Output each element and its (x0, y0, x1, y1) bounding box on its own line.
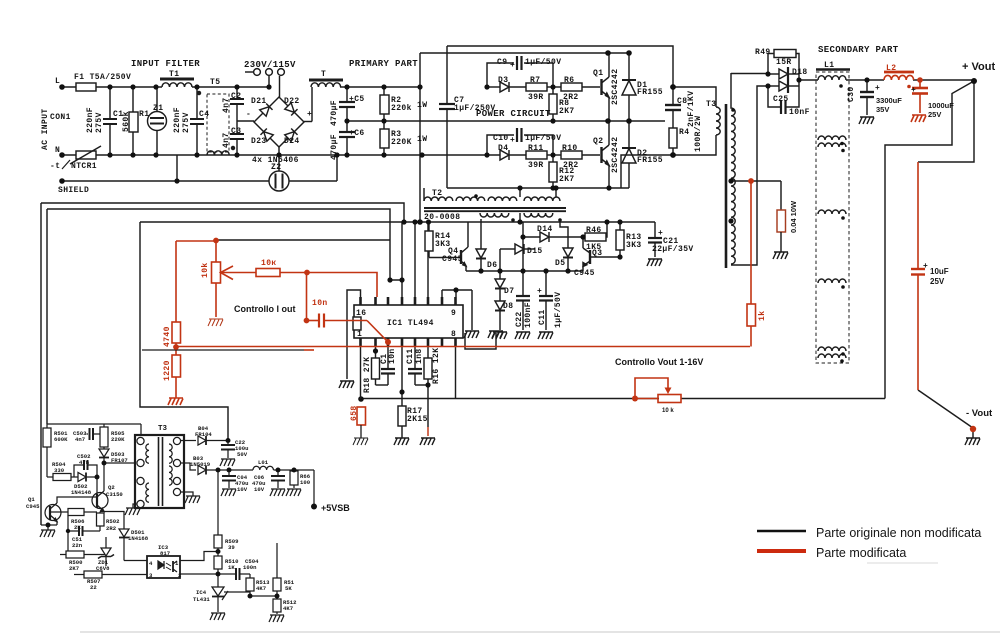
capacitor C4 (196, 87, 198, 119)
svg-text:FR107: FR107 (111, 457, 128, 464)
wire: bottom rail y=188 (447, 187, 629, 189)
resistor R509 (217, 470, 219, 535)
node 10n left (red) (304, 318, 310, 324)
wire: T2 taps (519, 188, 521, 197)
transistor Q2 (600, 147, 602, 163)
svg-text:+C6: +C6 (349, 129, 365, 138)
resistor R506 (50, 511, 68, 513)
svg-text:220k: 220k (391, 104, 412, 113)
svg-text:IC4: IC4 (196, 589, 207, 596)
svg-text:L: L (55, 77, 60, 86)
svg-text:25V: 25V (930, 277, 945, 286)
thermistor NTCR1 (76, 151, 96, 159)
wire: L2 to +Vout (913, 79, 974, 81)
ground C21 (647, 259, 662, 266)
potentiometer 10k (Controllo Vout) (635, 378, 668, 399)
svg-text:+: + (307, 110, 312, 119)
SEC_STANDBY (40, 424, 314, 622)
wire: shield line (62, 180, 269, 182)
svg-text:R7: R7 (530, 76, 540, 85)
capacitor C06 (277, 470, 279, 476)
svg-text:4n7: 4n7 (222, 132, 231, 148)
resistor R66 (293, 470, 295, 471)
capacitor C504 (232, 573, 235, 575)
svg-text:1µF/50V: 1µF/50V (525, 134, 561, 143)
wire: Q1 emitter to ground rail (41, 524, 57, 526)
svg-text:-: - (246, 110, 251, 119)
svg-text:100R/2W: 100R/2W (694, 116, 703, 152)
diode D03 1N5019 (180, 463, 196, 470)
wire: pin1 column (360, 346, 362, 399)
svg-text:C6V8: C6V8 (96, 565, 110, 572)
SEC_T3SEC (361, 50, 980, 446)
wire: Vcc bus y=222 (140, 221, 655, 223)
ground C22 (515, 332, 530, 339)
resistor R512 (273, 599, 281, 612)
resistor R4 (669, 128, 677, 148)
ground R16 column (420, 438, 435, 445)
wire: bus to chip pin columns (401, 222, 403, 280)
svg-text:L1: L1 (824, 61, 834, 70)
svg-text:+: + (537, 287, 542, 296)
svg-text:3K3: 3K3 (626, 241, 642, 250)
ground 1000uF (red) (911, 115, 926, 122)
svg-text:D23: D23 (251, 137, 267, 146)
transformer T3 core (725, 104, 728, 268)
transistor Q1 C945 (45, 505, 61, 521)
wire: opto pin2 to TL431 (180, 573, 232, 575)
wire: rectified + rail after bridge (340, 86, 420, 88)
resistor R504 (47, 476, 53, 478)
svg-text:C11: C11 (538, 309, 547, 325)
svg-text:35V: 35V (876, 105, 889, 114)
transformer T3 primary (673, 87, 716, 107)
wire: N neutral rail y=155 (62, 154, 447, 156)
svg-text:8: 8 (451, 330, 456, 339)
transistor Q3 (589, 250, 591, 264)
svg-text:D21: D21 (251, 97, 267, 106)
svg-text:47n: 47n (79, 459, 90, 466)
wire: mid rail y=121 (346, 120, 665, 122)
svg-text:T5: T5 (210, 78, 220, 87)
diode D4 (447, 154, 500, 156)
wire: collector rail column x=420 (419, 53, 421, 222)
wire: D18 output to L1 (799, 79, 818, 81)
diode D22 (285, 103, 298, 116)
capacitor C10 (487, 135, 514, 155)
svg-text:+: + (510, 61, 515, 70)
capacitor C8 (672, 87, 674, 105)
SEC_INPUT (62, 53, 665, 222)
svg-text:4K7: 4K7 (256, 585, 266, 592)
node -Vout (red) (970, 426, 976, 432)
svg-text:470µF: 470µF (330, 134, 339, 160)
wire: ground U right of chip (465, 333, 496, 349)
svg-text:15R: 15R (776, 58, 792, 67)
svg-text:1W: 1W (417, 101, 427, 110)
capacitor C1 (109, 87, 111, 119)
resistor R500 (60, 554, 66, 556)
diode D501 (104, 512, 124, 530)
legend modified line (757, 549, 806, 553)
svg-text:L2: L2 (886, 64, 896, 73)
ground C30 (859, 117, 874, 124)
svg-text:Parte modificata: Parte modificata (816, 546, 906, 560)
diode D21 (260, 103, 273, 116)
transistor Q1 (600, 79, 602, 95)
resistor R513 (249, 574, 251, 578)
wire: D14 drive line y=237 (523, 236, 540, 238)
resistor R505 (103, 424, 105, 427)
node N terminal (59, 152, 65, 158)
svg-text:600K: 600K (54, 436, 68, 443)
svg-text:817: 817 (160, 550, 170, 557)
capacitor C9 (487, 63, 514, 87)
capacitor C22 100u (227, 441, 229, 446)
svg-text:1µF/50V: 1µF/50V (554, 292, 563, 328)
svg-text:10nF: 10nF (789, 108, 810, 117)
transformer T2 current xfmr (423, 188, 425, 201)
varistor Z2 (269, 171, 289, 191)
svg-text:220nF: 220nF (173, 107, 182, 133)
wire: pin9/10 ground route (441, 290, 443, 297)
svg-text:2K15: 2K15 (407, 415, 428, 424)
wire: red diagonal inside IC to pin 3 (367, 321, 388, 343)
faint page edge line (80, 631, 1000, 633)
wire: feedback line to 10k pot (681, 398, 885, 400)
wire: drop to 10n node (306, 273, 308, 321)
red stub near I-out return (304, 349, 314, 351)
svg-text:C945: C945 (442, 255, 463, 264)
ground pin16 route (339, 381, 354, 388)
optocoupler IC3 817 (124, 560, 147, 562)
resistor R11 (526, 151, 547, 159)
wire: C2/C3 midpoint to bridge (237, 120, 254, 122)
capacitor C51 (68, 516, 78, 532)
wire: L phase rail y=87 (62, 86, 162, 88)
ground T3 right (180, 492, 193, 496)
wire: black return Controllo I out (142, 349, 304, 351)
wire: bridge bottom to Z2 (278, 147, 280, 171)
svg-text:+: + (510, 136, 515, 145)
wire: feedback divider (250, 595, 277, 597)
resistor 1K (red) (747, 304, 756, 326)
svg-text:IC1 TL494: IC1 TL494 (387, 319, 434, 328)
svg-text:1K5: 1K5 (586, 243, 602, 252)
svg-text:FR155: FR155 (637, 156, 663, 165)
pin stubs bottom (361, 338, 456, 346)
wire: red sense line with 10uF (917, 162, 919, 269)
resistor R7 (526, 83, 547, 91)
op-amp controller IC1 TL494 body (354, 305, 463, 338)
svg-text:D22: D22 (284, 97, 300, 106)
svg-text:50V: 50V (237, 451, 248, 458)
capacitor C6 (346, 121, 348, 132)
inductor L01 (253, 466, 273, 470)
svg-text:D3: D3 (498, 76, 508, 85)
svg-text:330: 330 (54, 467, 65, 474)
svg-text:4n7: 4n7 (222, 97, 231, 113)
svg-text:Controllo Vout 1-16V: Controllo Vout 1-16V (615, 357, 703, 367)
svg-text:+: + (923, 262, 928, 271)
svg-text:C25: C25 (773, 95, 789, 104)
wire: T3 bottom return to D18 lower (731, 86, 768, 265)
varistor Z1 (156, 87, 158, 112)
resistor R17 (401, 346, 403, 406)
svg-text:9: 9 (451, 309, 456, 318)
capacitor 10n (red) (307, 320, 319, 322)
ground right of chip (464, 331, 479, 338)
svg-text:0.04 10W: 0.04 10W (789, 200, 798, 233)
capacitor C30 (866, 80, 868, 92)
resistor 658 (red body) (357, 407, 366, 425)
node shield terminal (59, 178, 65, 184)
capacitor C1 (387, 346, 389, 369)
svg-text:C8: C8 (677, 97, 687, 106)
resistor 10K series (256, 269, 280, 277)
capacitor C04 (228, 470, 230, 476)
svg-text:INPUT FILTER: INPUT FILTER (131, 59, 200, 69)
wire: T3 top to D18 (731, 73, 768, 75)
svg-text:SHIELD: SHIELD (58, 186, 89, 195)
svg-text:Q2: Q2 (593, 137, 603, 146)
wire: current sense red drop (750, 181, 752, 304)
ground T3 left (133, 504, 137, 508)
svg-text:T3: T3 (158, 425, 168, 433)
svg-text:FR155: FR155 (637, 88, 663, 97)
zener ZD1 C6V8 (105, 537, 107, 548)
svg-text:1220: 1220 (163, 360, 172, 381)
svg-text:T: T (321, 70, 326, 79)
wire: Z2 right return (289, 180, 337, 182)
resistor R6 (561, 83, 582, 91)
wire: pot top link y=240 (216, 239, 390, 241)
wire: C11/R16 bottom link (415, 384, 428, 386)
svg-text:1N4148: 1N4148 (71, 489, 92, 496)
svg-text:2K7: 2K7 (559, 175, 575, 184)
svg-text:1N5019: 1N5019 (190, 461, 211, 468)
capacitor C11 1uF/50V (545, 271, 547, 296)
svg-text:1000uF: 1000uF (928, 101, 954, 110)
svg-text:D4: D4 (498, 144, 508, 153)
ground R17 (394, 438, 409, 445)
pin stubs top (361, 297, 456, 305)
SEC_REDMOD (168, 181, 756, 405)
svg-text:D14: D14 (537, 225, 553, 234)
dual diode D18 (768, 73, 779, 75)
resistor R501 (46, 424, 48, 428)
SEC_TL494 (339, 290, 503, 445)
capacitor C25 (768, 86, 780, 107)
resistor R49 (768, 54, 774, 75)
svg-text:3300uF: 3300uF (876, 96, 902, 105)
resistor R10 (561, 151, 582, 159)
svg-text:1µF/50V: 1µF/50V (525, 58, 561, 67)
wire: L1 to C30 node (846, 79, 884, 81)
wire: -Vout diagonal (918, 390, 973, 428)
wire: standby HV feed (47, 423, 141, 425)
svg-text:275V: 275V (95, 112, 104, 133)
transistor Q4 (429, 257, 461, 259)
capacitor C2 (236, 87, 238, 99)
svg-text:220K: 220K (111, 436, 125, 443)
svg-text:10uF: 10uF (930, 267, 949, 276)
resistor R46 (585, 233, 606, 241)
svg-text:T3: T3 (706, 100, 716, 109)
wire: red feedback bus y=346.5 (176, 346, 750, 348)
wire: pin16 ground route (347, 290, 361, 379)
svg-text:C3150: C3150 (106, 491, 123, 498)
resistor R2 (383, 87, 385, 95)
shunt resistor 0.04 10W (777, 210, 786, 232)
svg-text:4K7: 4K7 (283, 605, 293, 612)
svg-text:C11: C11 (406, 348, 415, 364)
svg-text:2K7: 2K7 (559, 107, 575, 116)
svg-text:F1 T5A/250V: F1 T5A/250V (74, 73, 131, 82)
svg-text:+C5: +C5 (349, 95, 365, 104)
svg-text:22: 22 (90, 584, 97, 591)
svg-text:C3: C3 (231, 127, 241, 136)
transformer T3 secondary winding (731, 73, 735, 264)
svg-text:1W: 1W (417, 135, 427, 144)
node L2 output (red) (917, 77, 923, 83)
svg-text:D6: D6 (487, 261, 497, 270)
wire: bias chain down (67, 531, 69, 555)
svg-text:5K: 5K (285, 585, 292, 592)
transformer T5 (207, 94, 229, 152)
resistor R14 (428, 222, 430, 231)
svg-text:R10: R10 (562, 144, 578, 153)
capacitor C11 (timing 1n8) (414, 346, 416, 369)
resistor R510 (214, 556, 222, 569)
svg-text:100: 100 (300, 479, 311, 486)
wire: +Vout sense down-left (to Controllo Vout) (885, 81, 974, 399)
wire: to T3 primary top (104, 462, 137, 464)
svg-text:-t: -t (50, 162, 60, 171)
svg-text:Controllo I out: Controllo I out (234, 304, 295, 314)
svg-text:2K7: 2K7 (69, 565, 79, 572)
svg-text:C2: C2 (231, 92, 241, 101)
transistor Q2 C3150 (92, 493, 108, 509)
transformer T3 standby (135, 435, 184, 508)
svg-text:22n: 22n (72, 542, 83, 549)
resistor R51 (276, 543, 278, 578)
svg-text:D8: D8 (503, 302, 513, 311)
ground -Vout (972, 430, 974, 438)
ground C11 (538, 332, 553, 339)
wire: opto pin1 to R509 node (180, 552, 218, 561)
wire: return to T3 bottom (621, 155, 673, 188)
wire: R18/C1 bottom link (376, 384, 389, 386)
svg-text:+ Vout: + Vout (962, 61, 995, 73)
capacitor C22 100nF (522, 222, 524, 296)
wire: emitter line y=271 (466, 270, 583, 272)
svg-text:2: 2 (178, 572, 182, 579)
diode D8 (495, 301, 505, 310)
wire: bridge + to choke (304, 121, 312, 123)
svg-text:1µF/250V: 1µF/250V (454, 104, 496, 113)
wire: to TL494 pin 4 (280, 273, 377, 298)
capacitor C503 (87, 433, 89, 435)
svg-text:22µF/35V: 22µF/35V (652, 245, 694, 254)
svg-text:T2: T2 (432, 189, 442, 198)
wire: +5VSB drop (313, 470, 315, 506)
voltage selector switch 230V/115V (245, 71, 253, 73)
svg-text:NTCR1: NTCR1 (71, 162, 97, 171)
wire: upper loop line B (47, 209, 390, 240)
node pot top (red) (213, 238, 219, 244)
wire: shield tap riser (176, 155, 178, 181)
svg-text:+: + (875, 84, 880, 93)
inductor L1 (multi-winding, dashed body) (816, 68, 850, 71)
wire: left vertical to standby (40, 203, 42, 525)
svg-text:4n7: 4n7 (75, 436, 85, 443)
capacitor C502 (74, 465, 83, 477)
svg-text:R502: R502 (106, 518, 120, 525)
ground pot (red) (208, 319, 223, 326)
capacitor C21 (654, 222, 656, 238)
potentiometer 10k (Controllo I out) (215, 241, 217, 262)
svg-text:T1: T1 (169, 70, 179, 79)
svg-text:10V: 10V (254, 486, 265, 493)
svg-text:CON1: CON1 (50, 113, 71, 122)
diode D04 FR104 (180, 440, 196, 442)
svg-text:230V/115V: 230V/115V (244, 60, 296, 70)
svg-text:+: + (911, 86, 916, 95)
svg-text:C945: C945 (574, 269, 595, 278)
pot wiper arrow (221, 266, 234, 280)
resistor 1220 (red) (172, 355, 181, 377)
capacitor 10uF 25V (red) (911, 268, 925, 270)
SEC_POWER (420, 46, 726, 268)
resistor R507 (74, 574, 84, 576)
svg-text:C4: C4 (199, 110, 209, 119)
svg-text:R11: R11 (528, 144, 544, 153)
wire: top snubber line y=46 (447, 46, 673, 87)
ground 658 (353, 438, 368, 445)
diode D5 (560, 220, 568, 248)
SEC_BG (80, 563, 1000, 632)
svg-text:R18 27K: R18 27K (363, 357, 372, 393)
svg-text:10n: 10n (388, 348, 397, 364)
resistor R3 (383, 121, 385, 129)
svg-text:220K: 220K (391, 138, 412, 147)
capacitor 1000uF 25V (red) (919, 80, 921, 88)
wire: T3 centre tap to shunt (731, 180, 781, 182)
svg-text:SECONDARY PART: SECONDARY PART (818, 45, 899, 55)
svg-text:C9: C9 (497, 58, 507, 67)
svg-text:Z1: Z1 (153, 104, 163, 113)
svg-text:1N4168: 1N4168 (128, 535, 149, 542)
shunt reference IC4 TL431 (212, 587, 224, 596)
wire: red link to pot top (176, 240, 216, 242)
svg-text:- Vout: - Vout (966, 408, 993, 419)
SEC_CONTROL (41, 203, 662, 525)
svg-text:4740: 4740 (163, 326, 172, 347)
svg-text:+5VSB: +5VSB (321, 503, 350, 513)
svg-text:25V: 25V (928, 110, 941, 119)
svg-text:2K: 2K (74, 524, 81, 531)
node current sense tap (red) (748, 178, 754, 184)
svg-text:C10: C10 (493, 134, 509, 143)
svg-text:L01: L01 (258, 459, 269, 466)
svg-text:10k: 10k (201, 262, 210, 278)
legend original line (757, 530, 806, 533)
resistor R1 (132, 87, 134, 112)
svg-text:AC INPUT: AC INPUT (41, 108, 50, 150)
choke T after bridge (309, 79, 343, 82)
resistor R502 (100, 511, 104, 513)
